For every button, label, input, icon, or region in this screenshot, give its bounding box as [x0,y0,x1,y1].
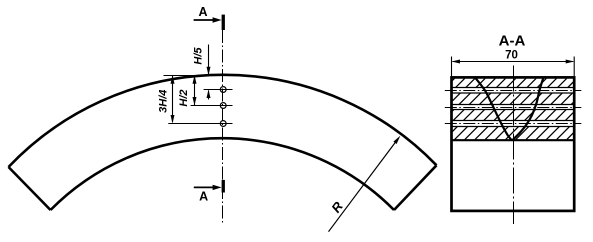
outer arc of curved beam [9,75,437,167]
hole circle 3 [220,121,226,127]
right end cap [394,165,437,210]
svg-text:3H/4: 3H/4 [158,90,170,113]
hole 3 section lines [452,121,575,127]
extension line hole 3 [168,123,232,125]
dimension H/5 line (arrows outside) [207,45,211,100]
svg-text:H/2: H/2 [178,89,190,106]
hatch bottom boundary line [452,139,575,141]
svg-text:A: A [198,5,207,19]
section arrow A (top) [194,15,225,30]
radius leader line R [329,136,401,232]
svg-text:A: A [199,190,208,204]
hole 3 centerline [445,123,582,125]
extension line hole 2 [191,105,233,107]
hole 2 section lines [452,105,575,110]
hole 1 section lines [452,88,575,94]
section outline rectangle [452,77,575,211]
svg-text:R: R [328,198,346,215]
svg-text:H/5: H/5 [193,47,205,65]
svg-text:70: 70 [505,50,518,62]
dimension H/2 line [193,75,197,105]
hole circle 1 [220,87,226,93]
section arrow A (bottom) [194,180,225,193]
section hatching [452,78,573,139]
svg-text:A-A: A-A [499,33,526,50]
dimension 70 [452,57,575,77]
hole circle 2 [220,103,226,109]
dimension 3H/4 line [171,75,175,123]
hole voids (white) [451,88,575,94]
vertical centerline (section plane A-A) [222,30,224,225]
left end cap [9,167,51,210]
hole 1 centerline [445,90,582,92]
inner arc of curved beam [51,138,395,210]
parabola curve in section [475,77,544,140]
top reference extension line (crown level) [164,75,233,77]
section vertical centerline [513,66,515,225]
extension line hole 1 [204,89,233,91]
hole 2 centerline [445,107,582,109]
